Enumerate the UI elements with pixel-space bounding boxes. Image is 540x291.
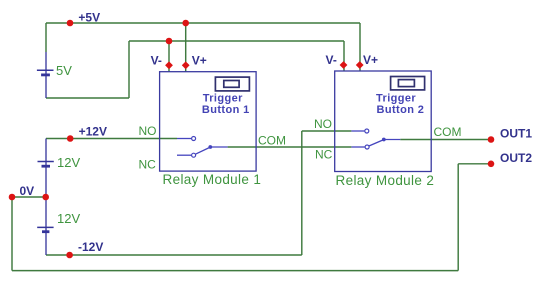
svg-text:12V: 12V bbox=[57, 211, 80, 226]
wire V- drop to relay module 2 bbox=[343, 41, 345, 71]
wire V+ drop to relay module 2 bbox=[359, 23, 361, 72]
relay 1 COM pin bbox=[210, 146, 227, 148]
svg-text:-12V: -12V bbox=[78, 240, 103, 254]
wire -12V horizontal bbox=[46, 254, 302, 256]
svg-text:COM: COM bbox=[434, 125, 462, 139]
pin dot V+ module 2 bbox=[356, 61, 364, 69]
svg-text:V-: V- bbox=[326, 53, 337, 67]
battery stack pins (blue vertical) bbox=[45, 139, 47, 256]
svg-text:NO: NO bbox=[314, 117, 332, 131]
wire relay 1 COM to relay 2 NC bbox=[228, 146, 352, 148]
svg-text:5V: 5V bbox=[56, 63, 72, 78]
relay 1 lever bbox=[195, 145, 212, 154]
svg-text:Trigger: Trigger bbox=[376, 92, 416, 104]
junction +5V label anchor bbox=[67, 20, 74, 27]
svg-text:Button 2: Button 2 bbox=[377, 104, 425, 116]
junction +12V label anchor bbox=[67, 135, 74, 142]
pin dot V+ module 1 bbox=[182, 61, 190, 69]
wire battery 5V negative bottom run bbox=[46, 97, 129, 99]
svg-text:Button 1: Button 1 bbox=[202, 104, 250, 116]
svg-text:V+: V+ bbox=[363, 53, 378, 67]
pin dot V- module 1 bbox=[165, 61, 173, 69]
relay 2 COM pin bbox=[384, 139, 401, 141]
svg-text:Relay Module 1: Relay Module 1 bbox=[163, 172, 262, 187]
relay 2 lever bbox=[369, 138, 386, 146]
relay 1 NO pin bbox=[177, 137, 196, 141]
wire OUT2 riser bbox=[457, 164, 459, 271]
junction OUT2 bbox=[488, 161, 495, 168]
wire riser to V- rail bbox=[128, 41, 130, 98]
battery BT3 12V bbox=[37, 227, 53, 231]
svg-text:NO: NO bbox=[139, 124, 157, 138]
svg-text:OUT2: OUT2 bbox=[500, 151, 532, 165]
svg-text:12V: 12V bbox=[57, 155, 80, 170]
wire relay 2 COM to OUT1 bbox=[400, 139, 491, 141]
relay 2 NC pin bbox=[351, 145, 369, 149]
wire bottom 0V run bbox=[12, 270, 458, 272]
wire +12V to relay 1 NO bbox=[46, 138, 177, 140]
svg-text:+12V: +12V bbox=[79, 124, 107, 138]
wire -12V riser to relay 2 NO bbox=[301, 131, 303, 255]
trigger button 2 icon bbox=[391, 77, 425, 90]
battery BT2 12V bbox=[38, 162, 54, 167]
svg-text:OUT1: OUT1 bbox=[500, 127, 532, 141]
junction -12V label anchor bbox=[66, 252, 73, 259]
svg-text:V+: V+ bbox=[192, 54, 207, 68]
wire to relay 2 NO pin bbox=[302, 130, 352, 132]
svg-text:V-: V- bbox=[151, 54, 162, 68]
wire 0V left drop bbox=[11, 197, 13, 271]
wire V- drop to relay module 1 bbox=[168, 41, 170, 72]
junction V- rail to V-1 bbox=[166, 38, 173, 45]
svg-text:NC: NC bbox=[139, 158, 157, 172]
label Trigger Button 2 bbox=[376, 92, 424, 116]
svg-text:Relay Module 2: Relay Module 2 bbox=[336, 173, 435, 188]
relay module 2 box U2 bbox=[335, 71, 432, 172]
junction 0V label anchor bbox=[9, 194, 16, 201]
svg-text:NC: NC bbox=[315, 148, 333, 162]
svg-text:COM: COM bbox=[258, 134, 286, 148]
svg-text:Trigger: Trigger bbox=[203, 93, 243, 105]
junction +5V to V+1 bbox=[182, 20, 189, 27]
wire battery 5V positive riser bbox=[45, 23, 47, 52]
relay 1 NC pin bbox=[177, 153, 196, 157]
svg-text:+5V: +5V bbox=[78, 11, 100, 25]
relay module 1 box U1 bbox=[160, 72, 257, 171]
trigger button 1 icon bbox=[215, 77, 249, 91]
junction OUT1 bbox=[488, 136, 495, 143]
relay 2 NO pin bbox=[351, 129, 368, 133]
wire 0V stub bbox=[12, 196, 46, 198]
wire OUT2 stub bbox=[458, 163, 491, 165]
wire +5V top horizontal bbox=[46, 22, 360, 24]
pin dot V- module 2 bbox=[340, 61, 348, 69]
svg-text:0V: 0V bbox=[20, 184, 35, 198]
wire V- rail horizontal bbox=[129, 40, 344, 42]
battery BT1 5V bbox=[37, 52, 54, 98]
junction 0V on battery stack bbox=[42, 194, 49, 201]
wire V+ drop to relay module 1 bbox=[185, 23, 187, 72]
label Trigger Button 1 bbox=[202, 93, 250, 116]
